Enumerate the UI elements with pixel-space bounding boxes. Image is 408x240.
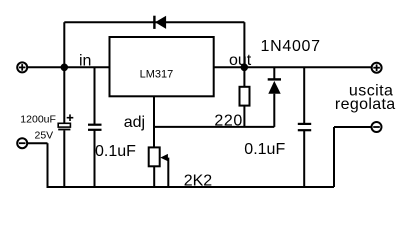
resistor R1 220 body	[240, 87, 250, 106]
wire top rail	[64, 21, 244, 23]
wire riser left to top rail	[63, 22, 65, 67]
svg-text:out: out	[229, 52, 252, 69]
capacitor C2 0.1uF left	[88, 67, 102, 187]
wire minus input to rail	[27, 143, 47, 187]
svg-text:25V: 25V	[35, 130, 54, 142]
diode D1 top (points left)	[154, 16, 166, 29]
capacitor C1 1200uF electrolytic	[58, 67, 73, 187]
svg-text:1200uF: 1200uF	[20, 114, 56, 126]
terminal input plus	[17, 62, 27, 72]
wire adj branch	[154, 126, 274, 128]
svg-text:LM317: LM317	[140, 68, 174, 80]
node out junction	[242, 65, 248, 71]
op-amp U1 LM317 box	[110, 37, 214, 96]
svg-text:2K2: 2K2	[184, 173, 213, 190]
svg-text:0.1uF: 0.1uF	[95, 143, 136, 160]
svg-text:in: in	[79, 52, 91, 69]
wire minus output to rail	[334, 127, 371, 187]
svg-text:1N4007: 1N4007	[261, 38, 321, 55]
svg-text:regolata: regolata	[335, 96, 396, 113]
wire bottom rail	[47, 186, 335, 188]
wire adj lead	[153, 96, 155, 147]
svg-text:220: 220	[214, 113, 243, 130]
resistor R1 220 leads	[243, 67, 245, 87]
wire riser right from out node to top rail	[243, 22, 245, 67]
capacitor C3 0.1uF right	[298, 67, 311, 187]
svg-text:0.1uF: 0.1uF	[244, 141, 285, 158]
svg-text:adj: adj	[124, 114, 145, 131]
wire out to terminal	[214, 66, 371, 68]
node input junction	[62, 65, 68, 71]
terminal output minus	[372, 122, 382, 132]
terminal output plus	[372, 63, 382, 73]
terminal input minus	[17, 138, 27, 148]
potentiometer R2 2K2	[149, 147, 169, 187]
diode D2 1N4007 vertical (points up)	[268, 67, 281, 127]
wire input to LM317 in	[27, 66, 109, 68]
